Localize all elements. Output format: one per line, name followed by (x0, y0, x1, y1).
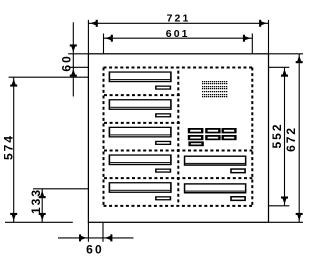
mailbox slot L4 (109, 154, 172, 165)
panel outline (88, 54, 268, 223)
row divider full 3 (104, 150, 253, 152)
row divider left 1 (104, 94, 181, 96)
dim 60 bottom arrow right (79, 234, 87, 241)
mailbox slot L5 (109, 182, 172, 193)
keypad button r1c3 (222, 128, 237, 133)
dim 60 top arrow up (70, 69, 77, 77)
svg-text:133: 133 (29, 188, 43, 214)
dim 552 line (284, 67, 286, 206)
dim 601 arrow right (243, 35, 251, 42)
module area dashed right edge (251, 68, 253, 206)
dim 721 extension right (268, 20, 270, 54)
dim 552 arrow down (281, 196, 288, 204)
dim 672 extension top (269, 53, 304, 55)
dim 552 arrow up (281, 69, 288, 77)
dim 60 top extension lower (69, 66, 89, 68)
svg-text:60: 60 (59, 54, 73, 71)
dim 601 extension left (103, 34, 105, 54)
dim 601 arrow left (105, 35, 113, 42)
dim 60 top line (72, 22, 74, 96)
module area dashed top edge (104, 67, 253, 69)
svg-text:60: 60 (86, 243, 104, 256)
dim 60 bottom extension right (102, 222, 104, 242)
keypad button r2c3 (222, 135, 237, 140)
dim 721 extension left (87, 20, 89, 54)
svg-text:574: 574 (2, 134, 16, 160)
dim 672 extension bottom (269, 221, 304, 223)
dim 672 arrow up (296, 55, 303, 63)
module area dashed bottom edge (104, 205, 253, 207)
dim 133 arrow down (39, 213, 46, 221)
keypad button r3c1 (188, 141, 203, 146)
dim 60 top arrow down (70, 44, 77, 52)
svg-text:601: 601 (166, 28, 190, 40)
dim 60 bottom arrow left (105, 234, 113, 241)
nameplate L4 (155, 169, 171, 173)
svg-text:672: 672 (284, 126, 298, 152)
mailbox slot L3 (109, 127, 172, 138)
keypad button r1c2 (205, 128, 220, 133)
keypad button r2c2 (205, 135, 220, 140)
dim 574 bottom reference line (5, 221, 73, 223)
dim 60 top extension upper (68, 53, 88, 55)
nameplate L2 (155, 113, 171, 117)
mailbox slot L2 (109, 99, 172, 110)
svg-text:552: 552 (270, 122, 284, 148)
speaker grille (202, 81, 227, 97)
nameplate L5 (155, 196, 171, 200)
dim 601 line (104, 37, 253, 39)
row divider full 4 (104, 177, 253, 179)
dim 721 arrow left (90, 20, 98, 27)
nameplate L3 (155, 141, 171, 145)
nameplate R5 (230, 196, 246, 201)
dim 672 arrow down (296, 213, 303, 221)
dim 574 arrow up (10, 79, 17, 87)
dim 552 extension bottom (269, 205, 290, 207)
dim 133 arrow up (39, 190, 46, 198)
dim 574 arrow down (10, 213, 17, 221)
nameplate R4 (230, 168, 246, 173)
nameplate L1 (155, 86, 171, 90)
mailbox slot R5 (184, 183, 247, 193)
dim 601 extension right (251, 34, 253, 54)
dim 60 bottom line (58, 237, 134, 239)
dim 133 extension top (33, 188, 88, 190)
keypad button r2c1 (188, 135, 204, 140)
mailbox slot L1 (109, 71, 172, 82)
dim 133 line (41, 189, 43, 223)
dim 574 line (13, 77, 15, 222)
dim 672 line (298, 54, 300, 223)
dim 574 extension top (9, 76, 89, 78)
module area dashed left edge (103, 68, 105, 206)
keypad button r1c1 (188, 128, 204, 133)
mailbox slot R4 (184, 156, 247, 166)
dim 552 extension top (269, 66, 290, 68)
row divider left 2 (104, 122, 181, 124)
dim 721 arrow right (259, 20, 267, 27)
column divider dashed (177, 68, 179, 206)
svg-text:721: 721 (167, 13, 191, 25)
dim 60 bottom extension left (87, 222, 89, 242)
dim 721 line (88, 22, 268, 24)
